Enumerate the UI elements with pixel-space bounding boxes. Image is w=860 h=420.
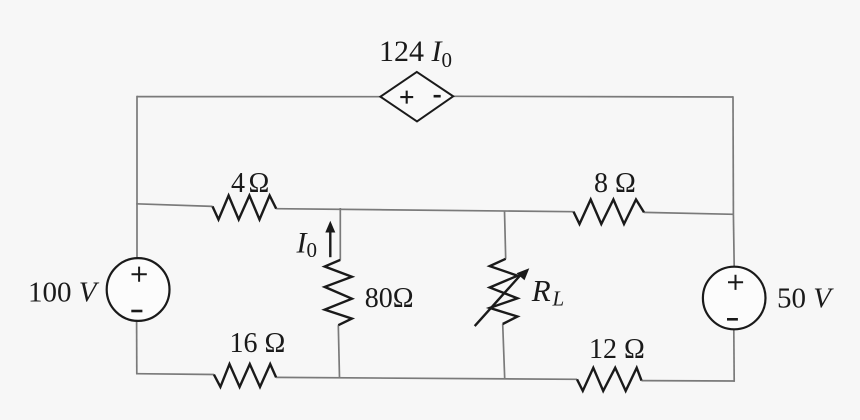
svg-text:100 V: 100 V <box>28 276 100 308</box>
dependent source diamond 124I0 <box>380 72 453 122</box>
wire bottom rail right segment <box>642 380 735 382</box>
current arrow I0 <box>329 231 331 258</box>
wire RL top lead <box>505 211 506 259</box>
svg-text:R: R <box>531 273 551 308</box>
dependent source plus sign <box>400 91 413 104</box>
wire 80ohm bottom lead <box>338 325 339 377</box>
wire middle rail left segment <box>136 204 212 207</box>
wire right rail lower <box>733 329 735 382</box>
voltage source 50V plus sign <box>728 275 743 290</box>
wire RL bottom lead <box>503 324 505 379</box>
wire 80ohm top lead <box>339 208 341 260</box>
resistor 16ohm zigzag <box>214 364 276 387</box>
svg-text:L: L <box>552 287 565 311</box>
variable resistor RL arrow <box>475 275 521 327</box>
svg-text:Ω: Ω <box>249 168 270 199</box>
voltage source 100V minus sign <box>131 310 142 313</box>
svg-text:12 Ω: 12 Ω <box>589 334 645 365</box>
wire right rail upper <box>732 96 734 214</box>
wire right rail middle <box>732 214 735 267</box>
voltage source 50V circle <box>703 267 766 330</box>
wire bottom rail middle segment <box>276 377 577 379</box>
wire left rail lower <box>136 321 138 374</box>
resistor 12ohm zigzag <box>577 368 642 391</box>
resistor 8ohm zigzag <box>574 200 645 225</box>
svg-text:80Ω: 80Ω <box>365 283 414 314</box>
voltage source 50V minus sign <box>727 318 738 321</box>
svg-text:4: 4 <box>231 168 245 199</box>
wire bottom rail left segment <box>136 373 214 376</box>
svg-text:8 Ω: 8 Ω <box>594 168 636 199</box>
svg-text:124 I0: 124 I0 <box>379 35 452 72</box>
voltage source 100V plus sign <box>132 267 147 282</box>
voltage source 100V circle <box>107 258 170 321</box>
dependent source minus sign <box>434 95 441 98</box>
svg-text:0: 0 <box>307 238 318 262</box>
variable resistor RL zigzag <box>490 259 518 324</box>
wire top rail left segment <box>137 96 381 98</box>
resistor 80ohm vertical zigzag <box>325 260 352 325</box>
svg-text:16 Ω: 16 Ω <box>230 328 286 359</box>
resistor 4ohm zigzag <box>213 196 277 220</box>
wire left rail upper <box>136 96 138 259</box>
wire top rail right segment <box>453 95 733 98</box>
wire middle rail right segment <box>644 212 734 214</box>
svg-text:50 V: 50 V <box>777 283 834 315</box>
wire middle rail center segment <box>276 209 573 212</box>
